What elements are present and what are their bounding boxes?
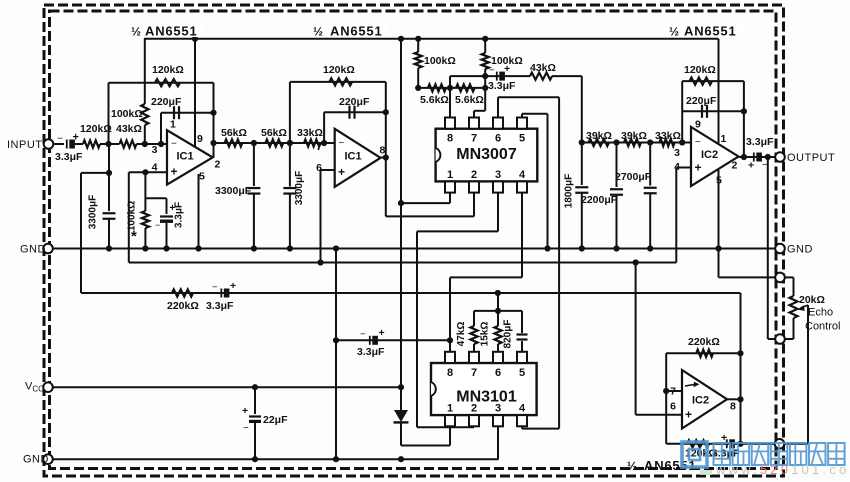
svg-text:220μF: 220μF xyxy=(339,96,370,108)
svg-text:6: 6 xyxy=(495,133,501,145)
svg-text:3.3μF: 3.3μF xyxy=(746,136,774,148)
svg-text:+: + xyxy=(504,63,510,75)
svg-text:39kΩ: 39kΩ xyxy=(621,130,647,142)
svg-text:3.3μF: 3.3μF xyxy=(55,151,83,163)
svg-text:MN3101: MN3101 xyxy=(456,389,517,406)
svg-text:6: 6 xyxy=(670,401,676,413)
svg-text:4: 4 xyxy=(519,403,526,415)
svg-text:IC2: IC2 xyxy=(701,149,718,161)
svg-text:100kΩ: 100kΩ xyxy=(127,201,138,231)
svg-text:120kΩ: 120kΩ xyxy=(684,64,716,76)
svg-text:GND: GND xyxy=(787,244,813,256)
svg-text:2: 2 xyxy=(215,159,221,171)
svg-text:5.6kΩ: 5.6kΩ xyxy=(455,94,484,106)
svg-text:½: ½ xyxy=(627,459,637,473)
svg-text:−: − xyxy=(243,423,249,434)
svg-text:1: 1 xyxy=(447,403,453,415)
svg-text:½: ½ xyxy=(669,25,679,39)
svg-text:3300μF: 3300μF xyxy=(294,171,305,205)
svg-text:3300μF: 3300μF xyxy=(215,185,252,197)
svg-text:22μF: 22μF xyxy=(263,414,288,426)
svg-text:+: + xyxy=(379,327,385,339)
svg-text:7: 7 xyxy=(471,367,477,379)
svg-text:IC2: IC2 xyxy=(692,395,709,407)
svg-text:3.3μF: 3.3μF xyxy=(357,346,385,358)
svg-text:−: − xyxy=(155,220,160,230)
svg-text:8: 8 xyxy=(447,133,453,145)
svg-text:3.3μF: 3.3μF xyxy=(712,448,740,460)
svg-text:3.3μF: 3.3μF xyxy=(206,300,234,312)
svg-text:2200μF: 2200μF xyxy=(581,194,618,206)
svg-text:56kΩ: 56kΩ xyxy=(261,127,287,139)
svg-text:−: − xyxy=(695,137,701,148)
svg-text:−: − xyxy=(360,329,366,340)
svg-text:3300μF: 3300μF xyxy=(88,195,99,229)
svg-text:6: 6 xyxy=(495,367,501,379)
svg-text:8: 8 xyxy=(447,367,453,379)
svg-text:120kΩ: 120kΩ xyxy=(152,64,184,76)
svg-text:20kΩ: 20kΩ xyxy=(799,294,825,306)
svg-text:220kΩ: 220kΩ xyxy=(688,336,720,348)
svg-text:3: 3 xyxy=(674,147,680,159)
svg-text:−: − xyxy=(57,134,63,145)
svg-text:5: 5 xyxy=(519,367,525,379)
svg-text:+: + xyxy=(695,161,702,175)
svg-text:+: + xyxy=(338,165,345,179)
svg-text:220μF: 220μF xyxy=(151,96,182,108)
svg-text:9: 9 xyxy=(197,133,203,145)
svg-text:5.6kΩ: 5.6kΩ xyxy=(420,94,449,106)
svg-text:+: + xyxy=(171,165,178,179)
svg-text:8: 8 xyxy=(730,401,736,413)
svg-text:2: 2 xyxy=(471,169,477,181)
svg-text:9: 9 xyxy=(695,119,701,131)
svg-text:+: + xyxy=(73,132,79,144)
svg-text:5: 5 xyxy=(199,171,205,183)
svg-text:IC1: IC1 xyxy=(345,151,362,163)
svg-text:MN3007: MN3007 xyxy=(456,146,517,163)
svg-text:www.520101.com: www.520101.com xyxy=(715,462,850,477)
svg-text:1: 1 xyxy=(447,169,453,181)
svg-text:1: 1 xyxy=(170,119,176,131)
svg-text:AN6551: AN6551 xyxy=(145,24,198,39)
svg-text:GND: GND xyxy=(23,454,49,466)
svg-text:INPUT: INPUT xyxy=(7,139,43,151)
svg-text:1: 1 xyxy=(721,133,727,145)
svg-text:56kΩ: 56kΩ xyxy=(221,127,247,139)
svg-text:100kΩ: 100kΩ xyxy=(111,108,143,120)
svg-text:3.3μF: 3.3μF xyxy=(174,202,185,228)
svg-text:3.3μF: 3.3μF xyxy=(488,80,516,92)
svg-text:½: ½ xyxy=(131,25,141,39)
svg-text:2: 2 xyxy=(732,160,738,172)
svg-text:*: * xyxy=(131,228,137,245)
svg-text:1800μF: 1800μF xyxy=(564,174,575,208)
svg-text:½: ½ xyxy=(313,25,323,39)
svg-text:47kΩ: 47kΩ xyxy=(456,322,467,347)
svg-text:2700μF: 2700μF xyxy=(615,171,652,183)
svg-text:IC1: IC1 xyxy=(177,151,194,163)
svg-text:−: − xyxy=(171,139,177,150)
svg-text:3: 3 xyxy=(495,169,501,181)
svg-text:220kΩ: 220kΩ xyxy=(167,300,199,312)
svg-text:120kΩ: 120kΩ xyxy=(323,64,355,76)
svg-text:Control: Control xyxy=(805,321,840,333)
svg-text:3: 3 xyxy=(495,403,501,415)
svg-text:AN6551: AN6551 xyxy=(684,24,737,39)
svg-text:220μF: 220μF xyxy=(686,95,717,107)
svg-text:820μF: 820μF xyxy=(503,320,514,349)
svg-text:2: 2 xyxy=(471,403,477,415)
svg-text:3: 3 xyxy=(152,144,158,156)
svg-text:15kΩ: 15kΩ xyxy=(480,322,491,347)
svg-text:43kΩ: 43kΩ xyxy=(530,62,556,74)
svg-text:43kΩ: 43kΩ xyxy=(116,123,142,135)
svg-text:GND: GND xyxy=(20,244,46,256)
svg-text:33kΩ: 33kΩ xyxy=(297,127,323,139)
svg-text:120kΩ: 120kΩ xyxy=(80,123,112,135)
svg-text:OUTPUT: OUTPUT xyxy=(787,152,835,164)
svg-text:39kΩ: 39kΩ xyxy=(586,130,612,142)
svg-text:+: + xyxy=(748,160,754,172)
svg-text:7: 7 xyxy=(471,133,477,145)
svg-text:−: − xyxy=(339,138,345,149)
svg-text:AN6551: AN6551 xyxy=(330,24,383,39)
svg-text:33kΩ: 33kΩ xyxy=(655,130,681,142)
svg-text:4: 4 xyxy=(519,169,526,181)
svg-text:Echo: Echo xyxy=(808,307,833,319)
svg-text:+: + xyxy=(685,408,692,422)
svg-text:7: 7 xyxy=(316,141,322,153)
svg-text:−: − xyxy=(212,282,218,293)
svg-text:+: + xyxy=(242,405,248,417)
svg-text:−: − xyxy=(489,65,495,76)
svg-text:5: 5 xyxy=(519,133,525,145)
svg-text:100kΩ: 100kΩ xyxy=(424,55,456,67)
svg-text:+: + xyxy=(230,280,236,292)
